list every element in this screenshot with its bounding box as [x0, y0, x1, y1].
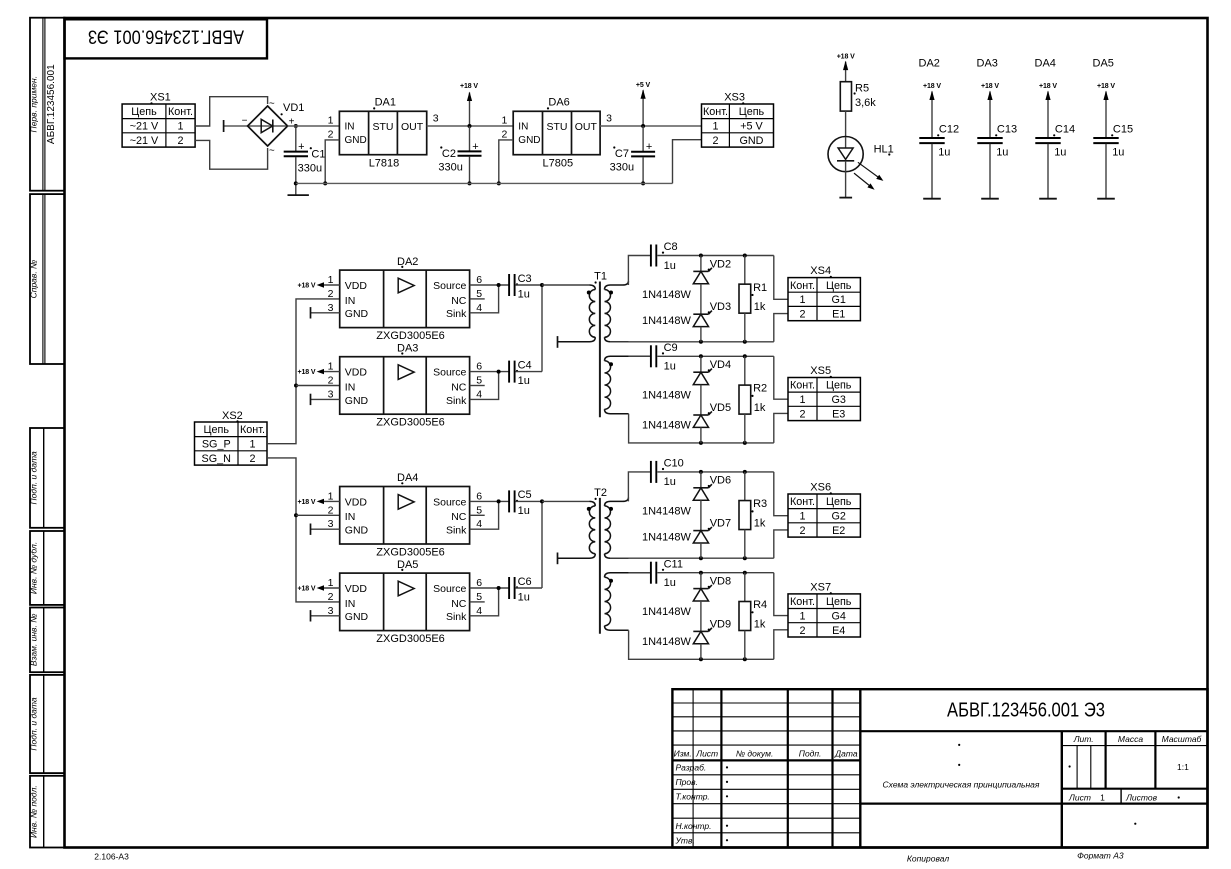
title block signature rows	[674, 748, 858, 845]
svg-text:C10: C10	[664, 458, 684, 470]
svg-text:XS6: XS6	[810, 482, 831, 494]
svg-text:Цепь: Цепь	[739, 106, 765, 118]
diode VD8 1N4148W	[693, 576, 731, 602]
capacitor C5 1u (output)	[509, 489, 532, 517]
svg-text:SG_N: SG_N	[202, 453, 231, 465]
power flag +18V at DA4 VDD	[298, 499, 340, 506]
capacitor C6 1u (output)	[509, 576, 532, 604]
node: VD2 top at C8	[699, 254, 703, 258]
ground rail (power section)	[296, 182, 673, 184]
wire top rail to R1	[744, 256, 746, 285]
svg-text:E4: E4	[832, 625, 845, 637]
svg-text:Изм.: Изм.	[674, 748, 692, 758]
svg-text:2: 2	[799, 308, 805, 320]
power flag +18V (main rail)	[460, 83, 478, 126]
svg-text:C9: C9	[664, 342, 678, 354]
wire DA5 Source pin6	[470, 587, 509, 589]
svg-text:4: 4	[476, 388, 482, 400]
left margin box: Инв. № подл.	[29, 776, 65, 848]
node: DA3 Source/Sink join	[497, 370, 501, 374]
svg-text:+18 V: +18 V	[460, 83, 478, 90]
left margin box: Подп. и дата (1)	[29, 428, 65, 528]
svg-text:XS3: XS3	[724, 92, 745, 104]
svg-text:3: 3	[328, 302, 334, 314]
document name Схема электрическая принципиальная	[883, 744, 1040, 790]
IC power label DA4	[1035, 58, 1056, 70]
svg-text:Цепь: Цепь	[826, 496, 852, 508]
svg-text:−: −	[242, 116, 248, 127]
svg-text:6: 6	[476, 361, 482, 373]
svg-text:IN: IN	[345, 511, 356, 523]
wire top rail to R2	[744, 356, 746, 385]
svg-text:1N4148W: 1N4148W	[642, 606, 692, 618]
svg-text:XS7: XS7	[810, 582, 831, 594]
power flag +18V (C14 bypass)	[1039, 83, 1057, 138]
wire secondary riser to bottom rail	[629, 414, 774, 443]
svg-text:1: 1	[328, 361, 334, 373]
IC power label DA5	[1093, 58, 1114, 70]
svg-text:Пров.: Пров.	[676, 777, 698, 787]
wire drive node to T2 primary	[542, 500, 590, 502]
svg-text:Подп. и дата: Подп. и дата	[29, 697, 39, 750]
wire SG_N branch to DA4 IN	[296, 514, 340, 516]
svg-text:3: 3	[433, 112, 439, 124]
capacitor C2 330u (polarized)	[438, 126, 481, 183]
svg-text:Sink: Sink	[446, 395, 467, 407]
svg-text:DA6: DA6	[548, 96, 569, 108]
node: DA4 Source/Sink join	[497, 499, 501, 503]
wire VD5 to bottom rail	[700, 427, 702, 443]
svg-text:5: 5	[476, 375, 482, 387]
wire XS2 pin2 SG_N bus	[267, 458, 340, 602]
svg-text:3: 3	[328, 388, 334, 400]
node: DA5 Source/Sink join	[497, 586, 501, 590]
wire C11 to diode/resistor top rail	[657, 572, 774, 574]
node: R3 bottom	[743, 556, 747, 560]
svg-text:VD1: VD1	[283, 102, 304, 114]
node: VD4 top at C9	[699, 354, 703, 358]
svg-text:VD8: VD8	[710, 576, 731, 588]
wire C3 output	[516, 284, 542, 286]
label 1N4148W (VD8)	[642, 606, 692, 618]
svg-text:Конт.: Конт.	[240, 424, 265, 436]
svg-text:1N4148W: 1N4148W	[642, 532, 692, 544]
ground symbol below C15	[1097, 198, 1115, 200]
node: +18V / C2	[468, 124, 472, 128]
node: DA1 GND at rail	[323, 181, 327, 185]
svg-text:+5 V: +5 V	[740, 121, 763, 133]
wire XS2 pin1 SG_P bus	[267, 299, 340, 444]
wire +21V rail bridge to DA1	[288, 125, 340, 127]
svg-text:NC: NC	[451, 295, 467, 307]
svg-text:VDD: VDD	[345, 280, 368, 292]
svg-text:Формат А3: Формат А3	[1077, 851, 1124, 861]
connector XS1	[122, 92, 195, 148]
wire bottom rail to XS5 pin2	[774, 413, 788, 442]
ground symbol below C14	[1039, 198, 1057, 200]
svg-text:Source: Source	[433, 583, 466, 595]
svg-text:Перв. примен.: Перв. примен.	[29, 76, 39, 133]
svg-text:Дата: Дата	[834, 748, 858, 758]
svg-text:R3: R3	[753, 498, 767, 510]
svg-text:Масштаб: Масштаб	[1162, 734, 1203, 744]
svg-text:Лист: Лист	[1068, 793, 1091, 803]
diode VD9 1N4148W	[693, 618, 731, 644]
node: VD8 top at C11	[699, 571, 703, 575]
svg-text:VDD: VDD	[345, 497, 368, 509]
wire secondary to C9	[628, 355, 650, 357]
svg-text:OUT: OUT	[401, 121, 424, 133]
svg-text:Утв.: Утв.	[675, 835, 695, 845]
resistor R3 1k	[739, 498, 767, 529]
svg-text:2: 2	[799, 625, 805, 637]
svg-text:1u: 1u	[1112, 146, 1124, 158]
node: SG_N at DA4 IN	[294, 513, 298, 517]
svg-text:1u: 1u	[664, 260, 676, 272]
power flag +18V at DA5 VDD	[298, 585, 340, 592]
svg-text:VDD: VDD	[345, 583, 368, 595]
svg-text:2: 2	[249, 453, 255, 465]
wire C5/C6 outputs join	[541, 501, 543, 588]
svg-text:1u: 1u	[518, 592, 530, 604]
svg-text:3: 3	[606, 112, 612, 124]
svg-text:Листов: Листов	[1125, 793, 1158, 803]
wire C9 top rail to VD4	[700, 356, 702, 372]
capacitor C11 1u	[651, 558, 683, 589]
svg-text:Справ. №: Справ. №	[29, 260, 39, 299]
svg-text:1N4148W: 1N4148W	[642, 315, 692, 327]
svg-text:Т.контр.: Т.контр.	[676, 792, 710, 802]
svg-text:+: +	[472, 141, 478, 153]
svg-text:~: ~	[269, 99, 275, 110]
svg-text:АБВГ.123456.001 Э3: АБВГ.123456.001 Э3	[88, 26, 244, 47]
ground symbol at C1	[288, 181, 309, 195]
wire bottom rail to XS7 pin2	[774, 630, 788, 659]
svg-text:C13: C13	[997, 124, 1017, 136]
svg-text:2: 2	[799, 408, 805, 420]
wire DA3 Source pin6	[470, 371, 509, 373]
svg-text:2: 2	[328, 504, 334, 516]
wire VD9 to bottom rail	[700, 644, 702, 660]
svg-text:C2: C2	[442, 148, 456, 160]
svg-text:DA3: DA3	[397, 342, 418, 354]
wire top rail to XS4 pin1	[774, 256, 788, 300]
top reference box АБВГ.123456.001 Э3 (rotated)	[65, 19, 268, 58]
svg-text:1k: 1k	[754, 517, 766, 529]
svg-text:XS5: XS5	[810, 365, 831, 377]
svg-text:L7818: L7818	[369, 158, 400, 170]
svg-text:OUT: OUT	[575, 121, 598, 133]
wire XS1 pin2 to bridge ~ bottom	[195, 140, 268, 169]
connector XS4	[788, 265, 860, 321]
ground symbol at DA5 GND pin	[311, 610, 340, 621]
svg-text:1k: 1k	[754, 402, 766, 414]
label 1N4148W (VD2)	[642, 289, 692, 301]
ground symbol below C12	[923, 198, 941, 200]
svg-text:+: +	[298, 141, 304, 153]
svg-text:~: ~	[269, 146, 275, 157]
svg-text:2: 2	[328, 591, 334, 603]
svg-text:+18 V: +18 V	[298, 586, 316, 593]
ground symbol at T2 primary	[557, 553, 559, 565]
wire bottom rail	[610, 557, 774, 559]
left margin box: Перв. примен.	[29, 18, 65, 191]
svg-text:1: 1	[799, 511, 805, 523]
svg-text:Конт.: Конт.	[790, 380, 815, 392]
gate driver DA5 ZXGD3005E6	[328, 559, 483, 645]
svg-text:+: +	[646, 141, 652, 153]
svg-text:6: 6	[476, 490, 482, 502]
svg-text:E1: E1	[832, 308, 845, 320]
wire drive node to T1 primary	[542, 284, 590, 286]
svg-text:Копировал: Копировал	[907, 854, 949, 864]
diode VD5 1N4148W	[693, 402, 731, 428]
voltage regulator DA1 L7818	[328, 96, 439, 169]
svg-text:DA3: DA3	[977, 58, 998, 70]
svg-text:2: 2	[328, 129, 334, 141]
svg-text:3: 3	[328, 518, 334, 530]
svg-text:G3: G3	[831, 394, 845, 406]
wire VD6 to VD7	[700, 500, 702, 530]
svg-text:GND: GND	[739, 135, 763, 147]
svg-text:1: 1	[328, 577, 334, 589]
wire VD2 to VD3	[700, 284, 702, 314]
title block Лит/Масса/Масштаб	[1069, 734, 1203, 772]
node: R4 top	[743, 571, 747, 575]
svg-text:2: 2	[177, 135, 183, 147]
svg-text:DA2: DA2	[397, 256, 418, 268]
wire bottom rail	[610, 341, 774, 343]
wire C4 output	[516, 371, 542, 373]
svg-text:1u: 1u	[518, 505, 530, 517]
svg-text:Конт.: Конт.	[790, 280, 815, 292]
wire VD4 to VD5	[700, 385, 702, 415]
svg-text:C3: C3	[518, 273, 532, 285]
svg-text:STU: STU	[547, 121, 568, 133]
svg-text:+18 V: +18 V	[298, 283, 316, 290]
wire secondary riser to bottom rail	[629, 630, 774, 659]
svg-text:2: 2	[328, 288, 334, 300]
svg-text:Конт.: Конт.	[168, 106, 193, 118]
svg-text:DA1: DA1	[375, 96, 396, 108]
node: T1 drive node	[540, 283, 544, 287]
svg-text:5: 5	[476, 504, 482, 516]
svg-text:G2: G2	[831, 511, 845, 523]
transformer T2	[558, 487, 651, 634]
svg-text:DA5: DA5	[1093, 58, 1114, 70]
svg-text:Цепь: Цепь	[131, 106, 157, 118]
capacitor C14 1u	[1035, 124, 1075, 199]
power flag +18V at DA2 VDD	[298, 282, 340, 289]
svg-text:Source: Source	[433, 280, 466, 292]
stub DA4 NC pin5	[470, 514, 485, 516]
diode VD4 1N4148W	[693, 359, 731, 385]
svg-text:C12: C12	[939, 124, 959, 136]
connector XS7	[788, 582, 860, 638]
svg-text:1u: 1u	[664, 476, 676, 488]
svg-text:C1: C1	[311, 149, 325, 161]
wire DA4 Source pin6	[470, 500, 509, 502]
resistor R5 3,6k	[840, 82, 876, 111]
svg-text:АБВГ.123456.001 Э3: АБВГ.123456.001 Э3	[947, 700, 1105, 722]
svg-text:Схема электрическая принципиал: Схема электрическая принципиальная	[883, 780, 1040, 790]
IC power label DA3	[977, 58, 998, 70]
capacitor C4 1u (output)	[509, 359, 532, 387]
svg-text:G4: G4	[831, 611, 845, 623]
node: R2 top	[743, 354, 747, 358]
capacitor C3 1u (output)	[509, 273, 532, 301]
svg-text:Sink: Sink	[446, 308, 467, 320]
svg-text:1k: 1k	[754, 301, 766, 313]
wire DA1 pin2 GND to ground rail	[325, 140, 339, 184]
svg-text:IN: IN	[345, 295, 356, 307]
node: VD3 bottom	[699, 340, 703, 344]
svg-text:SG_P: SG_P	[202, 439, 231, 451]
transformer T1	[558, 270, 651, 417]
capacitor C1 330u (polarized)	[284, 126, 326, 183]
svg-text:NC: NC	[451, 598, 467, 610]
wire DA4 Sink pin4 to Source node	[470, 501, 499, 529]
svg-text:АБВГ.123456.001: АБВГ.123456.001	[46, 64, 57, 144]
node: R3 top	[743, 470, 747, 474]
svg-text:1u: 1u	[664, 361, 676, 373]
svg-text:ZXGD3005E6: ZXGD3005E6	[376, 547, 444, 559]
svg-text:C6: C6	[518, 576, 532, 588]
svg-text:+18 V: +18 V	[923, 83, 941, 90]
svg-text:VDD: VDD	[345, 367, 368, 379]
wire C6 output	[516, 587, 542, 589]
svg-text:1: 1	[799, 394, 805, 406]
wire VD3 to bottom rail	[700, 327, 702, 342]
svg-text:~21 V: ~21 V	[130, 121, 159, 133]
bridge rectifier VD1	[224, 99, 305, 157]
gate driver DA2 ZXGD3005E6	[328, 256, 483, 342]
wire DA6 pin2 GND to ground rail	[499, 140, 513, 184]
wire bottom rail to XS4 pin2	[774, 314, 788, 342]
svg-text:GND: GND	[345, 308, 369, 320]
footer Копировал	[907, 854, 949, 864]
capacitor C12 1u	[919, 124, 959, 199]
svg-text:R1: R1	[753, 282, 767, 294]
svg-text:Взам. инв. №: Взам. инв. №	[29, 614, 39, 667]
svg-text:VD4: VD4	[710, 359, 731, 371]
wire top rail to XS6 pin1	[774, 472, 788, 516]
node: bridge + output	[294, 124, 298, 128]
svg-text:XS2: XS2	[222, 410, 243, 422]
svg-text:6: 6	[476, 577, 482, 589]
ground symbol at T1 primary	[557, 336, 559, 348]
svg-text:+18 V: +18 V	[981, 83, 999, 90]
svg-text:1u: 1u	[664, 577, 676, 589]
svg-text:STU: STU	[373, 121, 394, 133]
svg-text:Source: Source	[433, 497, 466, 509]
svg-text:XS1: XS1	[150, 92, 171, 104]
wire R2 to bottom rail	[744, 414, 746, 443]
node: VD5 bottom	[699, 441, 703, 445]
svg-text:VD5: VD5	[710, 402, 731, 414]
wire R3 to bottom rail	[744, 530, 746, 559]
svg-text:C7: C7	[615, 148, 629, 160]
svg-text:1: 1	[712, 121, 718, 133]
svg-text:IN: IN	[345, 381, 356, 393]
svg-text:Source: Source	[433, 367, 466, 379]
svg-text:Конт.: Конт.	[790, 496, 815, 508]
diode VD7 1N4148W	[693, 518, 731, 544]
gate driver DA4 ZXGD3005E6	[328, 472, 483, 558]
svg-text:Подп. и дата: Подп. и дата	[29, 451, 39, 504]
left margin box: Справ. №	[29, 194, 65, 364]
svg-text:1u: 1u	[938, 146, 950, 158]
svg-text:T1: T1	[594, 270, 607, 282]
node: SG_P at DA3 IN	[294, 384, 298, 388]
svg-text:1N4148W: 1N4148W	[642, 505, 692, 517]
svg-text:VD7: VD7	[710, 518, 731, 530]
wire C3/C4 outputs join	[541, 285, 543, 372]
svg-text:4: 4	[476, 605, 482, 617]
node: C2 at ground rail	[468, 181, 472, 185]
svg-text:5: 5	[476, 591, 482, 603]
svg-text:HL1: HL1	[874, 144, 894, 156]
node: +5V / C7	[641, 124, 645, 128]
capacitor C15 1u	[1093, 124, 1133, 199]
wire C10 to diode/resistor top rail	[657, 471, 774, 473]
wire XS1 pin1 to bridge ~ top	[195, 97, 268, 126]
svg-text:2: 2	[501, 129, 507, 141]
wire C11 top rail to VD8	[700, 573, 702, 589]
label 1N4148W (VD6)	[642, 505, 692, 517]
svg-text:VD9: VD9	[710, 618, 731, 630]
svg-text:R4: R4	[753, 599, 767, 611]
node: R1 bottom	[743, 340, 747, 344]
svg-text:G1: G1	[831, 294, 845, 306]
svg-text:E3: E3	[832, 408, 845, 420]
node: T2 drive node	[540, 499, 544, 503]
wire +5V rail DA6 to XS3	[600, 125, 701, 127]
svg-text:ZXGD3005E6: ZXGD3005E6	[376, 330, 444, 342]
label 1N4148W (VD5)	[642, 420, 692, 432]
power flag +5V	[636, 82, 651, 126]
svg-text:1: 1	[328, 490, 334, 502]
node: VD6 top at C10	[699, 470, 703, 474]
label 1N4148W (VD4)	[642, 390, 692, 402]
svg-text:4: 4	[476, 518, 482, 530]
power flag +18V (C13 bypass)	[981, 83, 999, 138]
svg-text:Sink: Sink	[446, 525, 467, 537]
resistor R4 1k	[739, 599, 767, 630]
document number АБВГ.123456.001 Э3	[947, 700, 1105, 722]
svg-text:GND: GND	[345, 395, 369, 407]
svg-text:C8: C8	[664, 241, 678, 253]
LED HL1	[828, 137, 894, 190]
wire bottom rail to XS6 pin2	[774, 530, 788, 558]
ground symbol at DA4 GND pin	[311, 524, 340, 535]
wire R4 to bottom rail	[744, 631, 746, 660]
wire top rail to R4	[744, 573, 746, 602]
wire C8 to diode/resistor top rail	[657, 255, 774, 257]
svg-text:IN: IN	[345, 598, 356, 610]
svg-text:VD2: VD2	[710, 258, 731, 270]
svg-text:1: 1	[501, 114, 507, 126]
svg-text:ZXGD3005E6: ZXGD3005E6	[376, 417, 444, 429]
svg-text:C11: C11	[664, 558, 683, 570]
svg-text:+18 V: +18 V	[298, 499, 316, 506]
wire SG_P branch to DA3 IN	[296, 385, 340, 387]
svg-text:1: 1	[1100, 793, 1105, 803]
svg-text:Инв. № дубл.: Инв. № дубл.	[29, 542, 39, 594]
wire VD8 to VD9	[700, 601, 702, 631]
power flag +18V at DA3 VDD	[298, 369, 340, 376]
label 1N4148W (VD9)	[642, 636, 692, 648]
